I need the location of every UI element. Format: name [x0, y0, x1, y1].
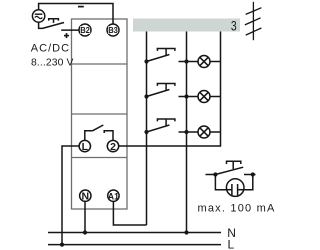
divider 3 [72, 157, 128, 159]
terminal A1 [108, 190, 120, 202]
AC/DC source G1 [32, 10, 44, 22]
svg-text:max. 100 mA: max. 100 mA [198, 202, 276, 214]
svg-text:AC/DC: AC/DC [31, 43, 70, 55]
svg-text:L: L [228, 237, 235, 250]
glow lamp of S4 [215, 175, 252, 197]
wire: switch to B2 [61, 29, 79, 31]
svg-text:L: L [82, 141, 89, 153]
junction dot N wire [83, 230, 87, 234]
wire: 2 terminal to lamps riser [118, 32, 220, 147]
illuminated push button S4 (annotation) [206, 161, 256, 176]
plus label [64, 33, 69, 38]
terminal 2 [107, 140, 118, 153]
terminal B3 [107, 24, 119, 36]
svg-text:3: 3 [231, 18, 237, 34]
N bus [48, 232, 221, 234]
wire: top minus wire from source to B3 [39, 4, 113, 25]
wire: button vertical (A1 line) [146, 32, 148, 226]
push button S3 [144, 119, 198, 134]
divider 2 [72, 113, 128, 115]
lamp E1 [198, 56, 221, 68]
push button S1 [144, 49, 198, 64]
terminal L [79, 140, 90, 153]
relay contact (L-2) inside box [85, 125, 113, 140]
wire: source bottom to switch pivot [39, 22, 43, 28]
lamp E2 [198, 91, 221, 103]
cable symbol (3-core slashes) [245, 2, 262, 40]
svg-text:B2: B2 [80, 25, 90, 35]
minus label [78, 6, 84, 8]
svg-text:A1: A1 [108, 191, 120, 202]
push button S0 (in + lead) [43, 19, 65, 29]
lamp E3 [198, 126, 221, 138]
terminal B2 [79, 24, 91, 36]
push button S2 [144, 84, 198, 99]
terminal N [80, 190, 91, 203]
wire: L terminal to L bus [62, 146, 79, 245]
divider 1 [72, 63, 128, 65]
gray cable bar [133, 19, 240, 32]
wire: A1 to button vertical [113, 201, 146, 225]
wire: N terminal to N bus [84, 201, 86, 233]
svg-text:8...230 V: 8...230 V [31, 58, 74, 69]
junction dot neutral/N bus [184, 230, 188, 234]
junction dot L bus [60, 243, 64, 247]
wire: neutral vertical [186, 32, 188, 233]
svg-text:2: 2 [110, 141, 116, 153]
L bus [48, 244, 221, 246]
svg-text:B3: B3 [108, 25, 118, 35]
device box [72, 19, 128, 209]
